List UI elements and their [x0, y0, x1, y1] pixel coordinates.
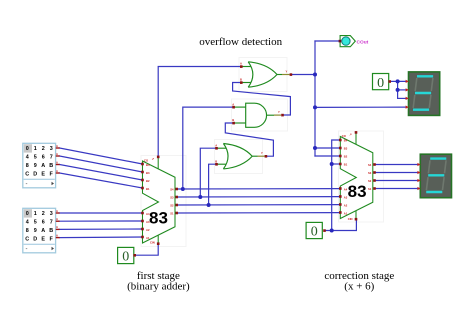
- svg-text:8: 8: [26, 228, 29, 234]
- wire S3 branch up to OR U4 input A: [200, 148, 216, 197]
- svg-text:↗: ↗: [349, 133, 352, 137]
- svg-text:A1: A1: [344, 212, 348, 216]
- svg-text:CIN: CIN: [150, 241, 155, 245]
- wire S2 bus: U1 sum2 to U5 A2: [177, 204, 341, 206]
- wire U5 sum4 to display D2 pin1: [374, 164, 417, 166]
- pin dot constant K3: [388, 80, 391, 83]
- svg-text:Y: Y: [261, 151, 263, 155]
- pin dots adder U1 left B group: [141, 163, 144, 166]
- wire constant K2 branch up to U5 B1 B4: [332, 140, 341, 231]
- svg-text:0: 0: [122, 250, 129, 265]
- wire keypad KP1 bit0 to U1 B1: [60, 173, 143, 188]
- bounding box adder U1: [141, 156, 186, 247]
- pin dot constant K1: [133, 254, 136, 257]
- svg-text:83: 83: [348, 182, 367, 201]
- wire column to COut indicator: [315, 40, 340, 42]
- svg-text:C: C: [25, 171, 29, 177]
- svg-text:7: 7: [50, 154, 53, 160]
- svg-text:6: 6: [42, 219, 45, 225]
- keypad KP1 bottom strip: [24, 178, 55, 180]
- svg-text:Y: Y: [286, 70, 288, 74]
- junction K3 net pin2: [396, 88, 400, 92]
- svg-text:A: A: [215, 143, 217, 147]
- bounding box adder U5: [339, 131, 384, 222]
- display D2 pin stubs: [417, 163, 420, 190]
- or-gate U4 output stub olive: [258, 155, 265, 157]
- output indicator COut: [339, 36, 369, 47]
- svg-text:S1: S1: [170, 212, 174, 216]
- wire K2 branch to U5 B1: [332, 163, 341, 165]
- display D1 pin stubs: [406, 80, 409, 109]
- keypad KP2 digits: [25, 211, 53, 243]
- pin dot U1 carry-in: [157, 242, 160, 245]
- svg-text:S4: S4: [170, 188, 174, 192]
- wire constant K3 to display D1 pin1: [390, 80, 407, 82]
- svg-text:D: D: [33, 171, 37, 177]
- svg-text:4: 4: [26, 219, 29, 225]
- wire keypad KP1 bit3 to U1 B4: [60, 148, 143, 164]
- svg-text:B: B: [240, 78, 242, 82]
- wire junction column vertical: [314, 41, 316, 156]
- svg-text:(x + 6): (x + 6): [344, 281, 374, 293]
- svg-text:B: B: [215, 159, 217, 163]
- svg-text:overflow detection: overflow detection: [199, 36, 282, 48]
- svg-text:D: D: [33, 236, 37, 242]
- svg-text:2: 2: [42, 146, 45, 152]
- svg-text:A: A: [56, 217, 58, 221]
- svg-text:A: A: [56, 152, 58, 156]
- adder U1 74LS83 body: [143, 157, 176, 244]
- svg-text:CO: CO: [144, 158, 148, 162]
- constant K1 box 0: [118, 247, 134, 264]
- pin dots adder U5 left B group: [339, 139, 342, 142]
- svg-text:S1: S1: [368, 187, 372, 191]
- svg-text:E: E: [41, 236, 45, 242]
- svg-text:B2: B2: [146, 179, 150, 183]
- wire S4 bus: U1 sum4 to U5 A4: [177, 188, 341, 190]
- pin dot U5 carry-in: [355, 218, 358, 221]
- svg-text:B: B: [232, 118, 234, 122]
- svg-text:A1: A1: [146, 236, 150, 240]
- svg-text:B4: B4: [344, 139, 348, 143]
- wire U5 sum1 to display D2 pin4: [374, 188, 417, 190]
- svg-text:E: E: [41, 171, 45, 177]
- carry-in stub U1: [157, 235, 159, 244]
- svg-text:B4: B4: [146, 163, 150, 167]
- and-gate U3: [234, 103, 275, 127]
- svg-text:A: A: [56, 144, 58, 148]
- svg-text:0: 0: [311, 225, 318, 240]
- svg-text:B3: B3: [146, 171, 150, 175]
- and-gate U3 output stub olive: [274, 114, 281, 116]
- keypad KP1 digits: [25, 146, 53, 178]
- bounding box or-gate U4: [215, 140, 263, 174]
- keypad KP2 frame: [23, 208, 56, 253]
- svg-text:3: 3: [50, 211, 53, 217]
- svg-text:A3: A3: [146, 220, 150, 224]
- carry-out stub U1: [157, 157, 159, 169]
- pin dots or-gate U2 inputs: [240, 65, 243, 68]
- svg-text:S4: S4: [368, 163, 372, 167]
- svg-text:A: A: [56, 209, 58, 213]
- svg-text:1: 1: [34, 211, 37, 217]
- svg-text:C: C: [25, 236, 29, 242]
- svg-text:3: 3: [50, 146, 53, 152]
- svg-text:A3: A3: [344, 196, 348, 200]
- pin dot U5 carry-out: [355, 131, 358, 134]
- svg-text:8: 8: [26, 163, 29, 169]
- svg-text:A: A: [56, 169, 58, 173]
- svg-text:S2: S2: [368, 179, 372, 183]
- svg-text:-: -: [26, 247, 28, 253]
- pin dots and-gate U3 inputs: [232, 106, 235, 109]
- pin dot constant K2: [323, 229, 326, 232]
- pin dots or-gate U4 inputs: [215, 147, 218, 150]
- svg-text:A: A: [232, 102, 234, 106]
- svg-text:B3: B3: [344, 147, 348, 151]
- wire z to adder U5 pin B2: [315, 155, 340, 157]
- svg-text:83: 83: [149, 209, 168, 228]
- pin dot or-gate U2 output: [290, 73, 293, 76]
- svg-text:Y: Y: [278, 110, 280, 114]
- wire C4: adder U1 carry-out up to OR gate U2 input A: [158, 67, 241, 157]
- svg-text:B: B: [49, 228, 53, 234]
- adder U5 74LS83 body: [340, 132, 373, 219]
- or-gate U2 output stub olive: [282, 74, 290, 76]
- svg-text:A: A: [56, 225, 58, 229]
- wire S2 branch up to OR U4 input B: [209, 164, 217, 205]
- svg-text:A: A: [240, 62, 242, 66]
- bounding box and-gate U3: [232, 99, 288, 131]
- junction K2 net at carry-in row: [330, 229, 334, 233]
- 7-segment display D2: [420, 154, 451, 198]
- wire keypad KP2 bit0 to U1 A1: [60, 236, 143, 239]
- svg-text:COut: COut: [357, 39, 369, 45]
- or-gate U2 overflow: [241, 62, 282, 87]
- wire keypad KP2 bit2 to U1 A3: [60, 220, 143, 222]
- keypad KP2 pin stubs: [56, 213, 60, 238]
- svg-text:A: A: [56, 160, 58, 164]
- svg-text:A2: A2: [146, 228, 150, 232]
- svg-text:S3: S3: [368, 171, 372, 175]
- svg-text:A: A: [56, 233, 58, 237]
- svg-text:0: 0: [377, 76, 384, 91]
- wire constant K2 to U5 carry-in: [324, 219, 356, 230]
- pin dots adder U5 left A group: [339, 187, 342, 190]
- svg-text:CIN: CIN: [348, 217, 353, 221]
- svg-text:CO: CO: [342, 134, 346, 138]
- wire keypad KP1 bit2 to U1 B3: [60, 156, 143, 172]
- wire S4 branch up to AND U3 input A: [183, 107, 234, 189]
- wire keypad KP2 bit3 to U1 A4: [60, 212, 143, 214]
- svg-text:↗: ↗: [152, 157, 155, 161]
- svg-text:7: 7: [50, 219, 53, 225]
- wire U5 sum2 to display D2 pin3: [374, 180, 417, 182]
- svg-text:B2: B2: [344, 155, 348, 159]
- pin dots adder U5 outputs: [373, 163, 376, 166]
- svg-text:5: 5: [34, 219, 37, 225]
- svg-text:1: 1: [34, 146, 37, 152]
- junction K2 net at B1: [330, 162, 334, 166]
- keypad KP1 pin stubs: [56, 148, 60, 173]
- wire constant K1 to U1 carry-in: [135, 244, 159, 256]
- pin dot or-gate U4 output: [265, 155, 268, 158]
- svg-text:5: 5: [34, 154, 37, 160]
- svg-text:B1: B1: [146, 187, 150, 191]
- wire keypad KP1 bit1 to U1 B2: [60, 165, 143, 181]
- wire S1 bus: U1 sum1 to U5 A1: [177, 212, 341, 214]
- svg-text:A: A: [41, 228, 45, 234]
- keypad KP1 selected cell 0: [24, 144, 32, 152]
- junction S4 branch: [181, 187, 185, 191]
- keypad KP2 bottom strip: [24, 243, 55, 245]
- svg-text:-: -: [26, 182, 28, 188]
- junction S2 branch: [207, 203, 211, 207]
- svg-text:2: 2: [42, 211, 45, 217]
- wire K3 to display D1 pin2: [398, 89, 406, 91]
- keypad KP2 selected cell 0: [24, 209, 32, 217]
- junction K3 net pin1: [396, 79, 400, 83]
- 7-segment display D1: [409, 72, 440, 116]
- junction z to B3 branch: [313, 146, 317, 150]
- svg-text:A: A: [41, 163, 45, 169]
- or-gate U4: [216, 144, 257, 169]
- wire K3 vertical: [397, 81, 399, 98]
- wire S3 bus: U1 sum3 to U5 A3: [177, 196, 341, 198]
- junction z to display branch: [313, 105, 317, 109]
- constant K3 box 0: [373, 74, 389, 91]
- svg-text:4: 4: [26, 154, 29, 160]
- junction z at OR U2 output row: [313, 73, 317, 77]
- svg-text:6: 6: [42, 154, 45, 160]
- pin dots adder U1 left A group: [141, 212, 144, 215]
- constant K2 box 0: [306, 222, 322, 239]
- svg-text:9: 9: [34, 228, 37, 234]
- svg-text:S2: S2: [170, 204, 174, 208]
- pin dots adder U1 outputs: [175, 188, 178, 191]
- wire keypad KP2 bit1 to U1 A2: [60, 228, 143, 230]
- pin dot and-gate U3 output: [281, 114, 284, 117]
- bounding box or-gate U2: [239, 58, 287, 92]
- svg-text:B: B: [49, 163, 53, 169]
- wire U5 sum3 to display D2 pin2: [374, 172, 417, 174]
- wire z to adder U5 pin B3: [315, 147, 340, 149]
- keypad KP1 frame: [23, 143, 56, 188]
- junction S3 branch: [198, 195, 202, 199]
- svg-text:A2: A2: [344, 204, 348, 208]
- carry-out stub U5: [355, 132, 357, 144]
- wire OR U4 output to AND U3 input B: [225, 123, 273, 156]
- svg-text:(binary adder): (binary adder): [127, 281, 190, 293]
- svg-text:A4: A4: [344, 188, 348, 192]
- pin dot U1 carry-out: [157, 156, 160, 159]
- svg-text:9: 9: [34, 163, 37, 169]
- svg-text:0: 0: [26, 211, 29, 217]
- svg-text:A4: A4: [146, 212, 150, 216]
- carry-in stub U5: [355, 211, 357, 220]
- svg-text:0: 0: [26, 146, 29, 152]
- svg-text:S3: S3: [170, 196, 174, 200]
- wire K3 to display D1 pin3: [398, 97, 406, 99]
- wire OR U2 output to junction column: [291, 74, 315, 76]
- svg-text:B1: B1: [344, 163, 348, 167]
- wire AND U3 output to OR U2 input B: [233, 83, 291, 116]
- wire z to display D1 pin4: [315, 106, 406, 108]
